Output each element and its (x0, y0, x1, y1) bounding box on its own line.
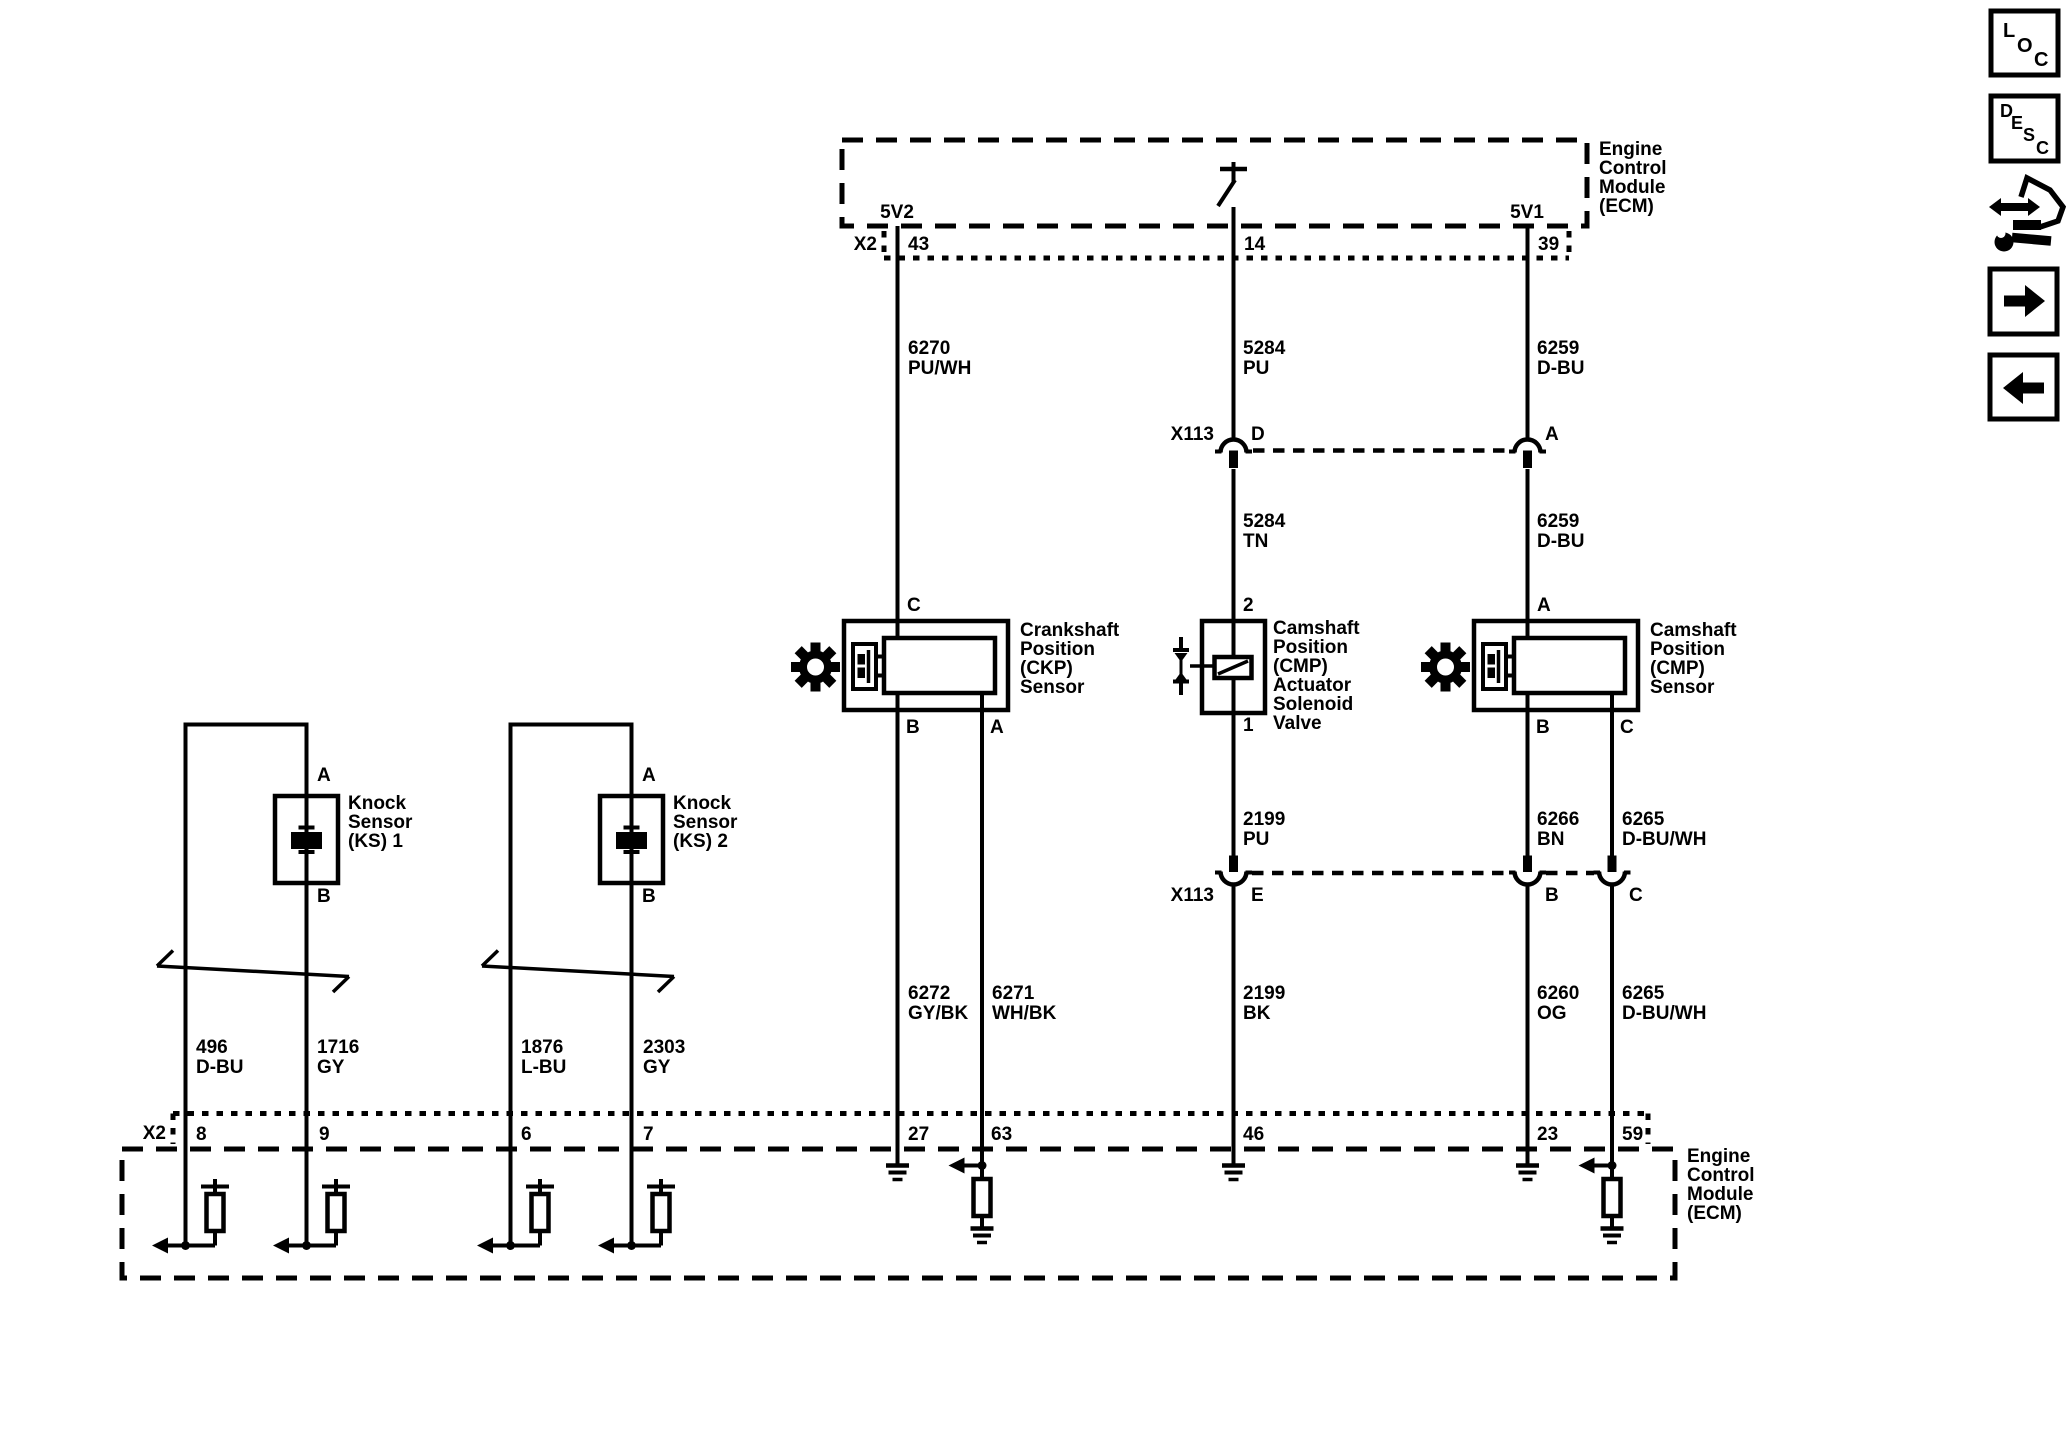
label 1876 L-BU (521, 1037, 566, 1078)
svg-text:TN: TN (1243, 531, 1268, 552)
wire 496 D-BU (KS1 loop left leg to ECM 8) (184, 723, 188, 1246)
svg-text:Position: Position (1273, 637, 1348, 658)
CKP title (1020, 620, 1120, 698)
svg-text:L-BU: L-BU (521, 1057, 566, 1078)
svg-text:A: A (990, 717, 1004, 738)
ECM pin 7 internal pull-up resistor (598, 1179, 675, 1254)
svg-text:BN: BN (1537, 829, 1564, 850)
wire 2303 GY (KS2 to ECM 7) (630, 723, 634, 1246)
svg-text:1: 1 (1243, 715, 1254, 736)
svg-text:Crankshaft: Crankshaft (1020, 620, 1120, 641)
svg-text:(KS) 1: (KS) 1 (348, 831, 403, 852)
svg-text:D: D (1251, 424, 1265, 445)
svg-text:6: 6 (521, 1124, 532, 1145)
svg-text:46: 46 (1243, 1124, 1264, 1145)
CMP actuator outer box (1202, 621, 1265, 713)
label 2199 BK (1243, 983, 1285, 1024)
svg-text:Valve: Valve (1273, 713, 1322, 734)
label 496 D-BU (196, 1037, 244, 1078)
svg-text:BK: BK (1243, 1003, 1271, 1024)
label 6265 D-BU/WH (upper) (1622, 809, 1706, 850)
svg-text:D-BU/WH: D-BU/WH (1622, 829, 1706, 850)
svg-text:D-BU: D-BU (1537, 358, 1585, 379)
sidebar icon DESC (1991, 96, 2058, 161)
sidebar icon next arrow (1990, 269, 2057, 334)
svg-text:27: 27 (908, 1124, 929, 1145)
svg-text:(ECM): (ECM) (1599, 196, 1654, 217)
label 6259 D-BU (lower) (1537, 511, 1585, 552)
label 6260 OG (1537, 983, 1579, 1024)
svg-text:Sensor: Sensor (1650, 677, 1715, 698)
svg-text:5284: 5284 (1243, 338, 1286, 359)
svg-text:X113: X113 (1171, 424, 1214, 445)
svg-text:C: C (907, 595, 921, 616)
svg-text:6259: 6259 (1537, 338, 1579, 359)
label 1716 GY (317, 1037, 359, 1078)
svg-text:Sensor: Sensor (673, 812, 738, 833)
CKP sensor outer box (844, 621, 1008, 710)
X113 top jumper dashed wire (1253, 448, 1508, 453)
CMP sensor outer box (1474, 621, 1638, 710)
svg-text:O: O (2017, 35, 2033, 57)
svg-text:X2: X2 (854, 234, 877, 255)
wire 6271 WH/BK (CKP sensor A to ECM 63) (980, 665, 984, 1166)
svg-text:B: B (642, 886, 656, 907)
X113 bottom jumper dashed wire B-C (1546, 871, 1594, 876)
ECM top label (1599, 139, 1667, 217)
CMP pickup element (1483, 644, 1514, 689)
svg-text:Knock: Knock (673, 793, 732, 814)
CMP actuator solenoid coil (1215, 657, 1252, 678)
svg-text:(CMP): (CMP) (1650, 658, 1705, 679)
svg-text:A: A (642, 765, 656, 786)
svg-text:5284: 5284 (1243, 511, 1286, 532)
svg-text:63: 63 (991, 1124, 1012, 1145)
svg-text:Engine: Engine (1687, 1146, 1750, 1167)
svg-text:A: A (1545, 424, 1559, 445)
label 6259 D-BU (upper) (1537, 338, 1585, 379)
svg-text:GY/BK: GY/BK (908, 1003, 968, 1024)
svg-text:5V1: 5V1 (1510, 202, 1544, 223)
sidebar icon back arrow (1990, 355, 2057, 419)
in-line connector X113 D (1215, 440, 1252, 469)
svg-text:6266: 6266 (1537, 809, 1579, 830)
wire 1876 L-BU (KS2 loop left leg to ECM 6) (509, 723, 513, 1246)
Knock Sensor (KS) 1 box (275, 796, 338, 883)
X2 connector strip top: dotted line (884, 231, 1569, 258)
ground at ECM pin 46 (1222, 1166, 1245, 1180)
svg-text:Control: Control (1687, 1165, 1755, 1186)
label 6271 WH/BK (992, 983, 1057, 1024)
wire KS1 loop top (184, 723, 309, 727)
svg-text:L: L (2003, 20, 2015, 42)
svg-text:WH/BK: WH/BK (992, 1003, 1057, 1024)
wire 1716 GY (KS1 to ECM 9) (305, 723, 309, 1246)
svg-text:9: 9 (319, 1124, 330, 1145)
ECM internal driver switch for CMP actuator (1218, 162, 1247, 206)
KS1 twisted pair symbol (157, 951, 349, 993)
svg-text:2199: 2199 (1243, 809, 1285, 830)
svg-text:B: B (1545, 885, 1559, 906)
svg-text:C: C (2034, 49, 2048, 71)
CKP gear icon (791, 643, 840, 692)
svg-text:A: A (1537, 595, 1551, 616)
CKP pickup element (853, 644, 884, 689)
svg-text:Sensor: Sensor (348, 812, 413, 833)
svg-text:Position: Position (1650, 639, 1725, 660)
Engine Control Module (ECM) top dashed box (842, 140, 1587, 226)
svg-text:7: 7 (643, 1124, 654, 1145)
label 2303 GY (643, 1037, 685, 1078)
svg-text:Module: Module (1687, 1184, 1754, 1205)
svg-text:C: C (2036, 138, 2049, 158)
svg-text:B: B (1536, 717, 1550, 738)
svg-text:23: 23 (1537, 1124, 1558, 1145)
ground at ECM pin 27 (886, 1166, 909, 1180)
svg-text:Camshaft: Camshaft (1273, 618, 1360, 639)
svg-text:(CKP): (CKP) (1020, 658, 1073, 679)
svg-text:E: E (1251, 885, 1264, 906)
svg-text:6259: 6259 (1537, 511, 1579, 532)
KS2 title (673, 793, 738, 852)
svg-text:B: B (317, 886, 331, 907)
ground at ECM pin 23 (1516, 1166, 1539, 1180)
KS2 piezo element (616, 828, 647, 853)
svg-text:59: 59 (1622, 1124, 1643, 1145)
svg-text:(KS) 2: (KS) 2 (673, 831, 728, 852)
ECM pin 9 internal pull-up resistor (273, 1179, 350, 1254)
svg-text:PU: PU (1243, 358, 1269, 379)
CMP actuator valve arrows symbol (1173, 637, 1189, 695)
wire 5284 PU / TN / 2199 (ECM 14 to CMP actuator to ECM 46) (1232, 207, 1236, 1166)
in-line connector X113 C (1594, 856, 1631, 885)
svg-text:D-BU: D-BU (1537, 531, 1585, 552)
svg-text:2199: 2199 (1243, 983, 1285, 1004)
svg-text:Engine: Engine (1599, 139, 1662, 160)
label 2199 PU (1243, 809, 1285, 850)
CKP sensor element inner box (884, 638, 995, 693)
CMP actuator link wire (1190, 664, 1216, 668)
X113 bottom jumper dashed wire E-B (1252, 871, 1509, 876)
svg-text:GY: GY (317, 1057, 345, 1078)
in-line connector X113 E (1215, 856, 1252, 885)
svg-text:Solenoid: Solenoid (1273, 694, 1353, 715)
svg-text:6270: 6270 (908, 338, 950, 359)
label 6272 GY/BK (908, 983, 968, 1024)
Knock Sensor (KS) 2 box (600, 796, 663, 883)
CMP gear icon (1421, 643, 1470, 692)
CMP actuator title (1273, 618, 1360, 734)
ECM pin 59 internal resistor to ground (1579, 1158, 1624, 1243)
label 5284 TN (1243, 511, 1286, 552)
svg-text:6272: 6272 (908, 983, 950, 1004)
svg-text:6271: 6271 (992, 983, 1035, 1004)
svg-text:496: 496 (196, 1037, 228, 1058)
svg-text:2: 2 (1243, 595, 1254, 616)
ECM pin 8 internal pull-up resistor (152, 1179, 229, 1254)
svg-text:Module: Module (1599, 177, 1666, 198)
svg-text:Camshaft: Camshaft (1650, 620, 1737, 641)
svg-text:C: C (1629, 885, 1643, 906)
svg-text:GY: GY (643, 1057, 671, 1078)
ECM bottom label (1687, 1146, 1755, 1224)
sidebar icon jump-to with wrench (1989, 178, 2063, 252)
svg-text:OG: OG (1537, 1003, 1567, 1024)
KS1 piezo element (291, 828, 322, 853)
svg-text:PU/WH: PU/WH (908, 358, 971, 379)
svg-text:6265: 6265 (1622, 809, 1665, 830)
svg-text:Sensor: Sensor (1020, 677, 1085, 698)
wire KS2 loop top (509, 723, 634, 727)
CMP sensor element inner box (1514, 638, 1625, 693)
svg-text:5V2: 5V2 (880, 202, 914, 223)
svg-text:Control: Control (1599, 158, 1667, 179)
svg-text:X2: X2 (143, 1123, 166, 1144)
in-line connector X113 A (1509, 440, 1546, 469)
in-line connector X113 B (1509, 856, 1546, 885)
svg-text:S: S (2023, 125, 2035, 145)
svg-text:Position: Position (1020, 639, 1095, 660)
label 6265 D-BU/WH (lower) (1622, 983, 1706, 1024)
svg-text:C: C (1620, 717, 1634, 738)
svg-text:A: A (317, 765, 331, 786)
svg-text:1716: 1716 (317, 1037, 359, 1058)
svg-text:D-BU: D-BU (196, 1057, 244, 1078)
svg-text:2303: 2303 (643, 1037, 685, 1058)
svg-text:D-BU/WH: D-BU/WH (1622, 1003, 1706, 1024)
svg-text:Knock: Knock (348, 793, 407, 814)
svg-text:B: B (906, 717, 920, 738)
svg-text:E: E (2011, 113, 2023, 133)
wire 6270 PU/WH (ECM 43 to CKP sensor C, to CKP B ground 27) (896, 226, 900, 1166)
svg-text:43: 43 (908, 234, 929, 255)
X2 connector strip bottom: dotted line (173, 1114, 1648, 1145)
svg-text:6265: 6265 (1622, 983, 1665, 1004)
label 5284 PU (1243, 338, 1286, 379)
svg-text:8: 8 (196, 1124, 207, 1145)
wire 6259 D-BU / 6266 BN / 6260 OG (ECM 39 to CMP sensor A/B to ECM 23) (1526, 226, 1530, 1166)
KS1 title (348, 793, 413, 852)
KS2 twisted pair symbol (482, 951, 674, 993)
svg-text:39: 39 (1538, 234, 1559, 255)
Engine Control Module (ECM) bottom dashed box (122, 1149, 1675, 1278)
ECM pin 63 internal resistor to ground (949, 1158, 994, 1243)
sidebar icon LOC (1991, 11, 2058, 75)
svg-text:X113: X113 (1171, 885, 1214, 906)
CMP sensor title (1650, 620, 1737, 698)
ECM pin 6 internal pull-up resistor (477, 1179, 554, 1254)
svg-text:Actuator: Actuator (1273, 675, 1352, 696)
svg-text:(CMP): (CMP) (1273, 656, 1328, 677)
svg-text:14: 14 (1244, 234, 1266, 255)
svg-text:(ECM): (ECM) (1687, 1203, 1742, 1224)
svg-text:PU: PU (1243, 829, 1269, 850)
wire 6265 D-BU/WH (CMP sensor C to ECM 59) (1610, 665, 1614, 1166)
label 6270 PU/WH (908, 338, 971, 379)
svg-text:6260: 6260 (1537, 983, 1579, 1004)
label 6266 BN (1537, 809, 1579, 850)
svg-text:1876: 1876 (521, 1037, 563, 1058)
